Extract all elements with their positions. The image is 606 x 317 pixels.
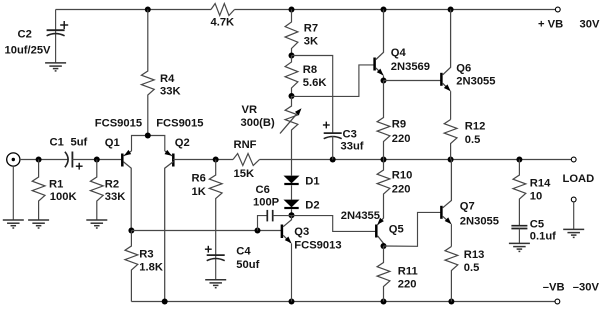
- label R13: [464, 249, 485, 261]
- wire top +VB rail left segment (C2 to 4.7K): [56, 9, 211, 11]
- resistor 4.7K (supply decoupling, in series with top rail): [211, 4, 235, 16]
- diode D2: [284, 200, 300, 216]
- svg-text:33K: 33K: [105, 191, 126, 203]
- label + VB: [538, 19, 563, 31]
- label C1 value 5uf: [71, 137, 88, 149]
- resistor R8 5.6K: [285, 56, 298, 97]
- ground below C4: [205, 280, 226, 288]
- label R2 value 33K: [105, 191, 126, 203]
- diode D1: [284, 176, 300, 200]
- svg-text:50uf: 50uf: [236, 259, 259, 271]
- label Q3 type FCS9013: [294, 239, 341, 251]
- label R6 value 1K: [192, 186, 206, 198]
- capacitor C3 33uf: [324, 133, 342, 159]
- svg-text:D2: D2: [305, 200, 319, 212]
- svg-text:FCS9015: FCS9015: [156, 118, 203, 130]
- wire output rail (RNF to LOAD terminal): [260, 159, 572, 161]
- wire R7/R8 junction to C3: [292, 56, 333, 134]
- wire Q5 collector to Q7 base: [384, 212, 442, 246]
- label C4: [236, 246, 251, 258]
- resistor R1 100K: [32, 160, 45, 221]
- label R8 value 5.6K: [303, 77, 327, 89]
- label D1: [305, 176, 319, 188]
- wire Q1 collector line to Q3 base: [131, 230, 281, 232]
- node junction emitters / R4: [145, 133, 151, 139]
- label VR value 300(B): [241, 117, 275, 129]
- svg-text:C1: C1: [50, 137, 64, 149]
- ground below C2: [45, 63, 66, 71]
- input jack J1: [7, 153, 20, 166]
- label Q2: [175, 137, 190, 149]
- svg-text:R13: R13: [464, 249, 485, 261]
- label C4 polarity +: [205, 246, 212, 253]
- label R14: [530, 177, 551, 189]
- label R3: [139, 249, 153, 261]
- label C1: [50, 137, 64, 149]
- wire Q4 emitter to Q6 base: [384, 80, 442, 82]
- svg-text:–30V: –30V: [573, 281, 600, 293]
- svg-text:R10: R10: [392, 170, 413, 182]
- label 30V: [580, 19, 600, 31]
- label Q5: [389, 224, 404, 236]
- svg-text:100P: 100P: [253, 197, 280, 209]
- svg-text:R2: R2: [105, 178, 119, 190]
- resistor R10 220: [377, 160, 390, 216]
- node junction base line / C6: [255, 228, 261, 234]
- label LOAD: [563, 173, 595, 185]
- svg-text:+ VB: + VB: [538, 19, 563, 31]
- node junction C1 / R2: [94, 157, 100, 163]
- terminal -VB: [555, 299, 560, 304]
- capacitor C1 5uf: [65, 152, 73, 168]
- variable resistor VR 300(B): [280, 96, 302, 176]
- svg-text:220: 220: [392, 133, 411, 145]
- node junction R8 / VR / Q4 base wire: [289, 93, 295, 99]
- svg-text:4.7K: 4.7K: [211, 17, 235, 29]
- resistor R4 33K: [141, 10, 154, 136]
- svg-text:–VB: –VB: [543, 281, 565, 293]
- transistor Q5 2N4355: [376, 216, 384, 247]
- label R10: [392, 170, 413, 182]
- svg-text:220: 220: [392, 183, 411, 195]
- label C3 polarity +: [323, 122, 330, 129]
- svg-text:2N3569: 2N3569: [391, 61, 430, 73]
- transistor Q3 FCS9013: [282, 215, 292, 301]
- label -VB: [543, 281, 565, 293]
- ground stub below input jack: [12, 166, 14, 220]
- svg-text:R1: R1: [49, 178, 63, 190]
- label -30V: [573, 281, 600, 293]
- label C6: [256, 184, 270, 196]
- terminal load return: [571, 197, 576, 202]
- resistor R6 1K: [209, 160, 222, 256]
- resistor R13 0.5: [445, 247, 458, 302]
- ground below R2: [86, 220, 107, 228]
- svg-text:C5: C5: [530, 218, 544, 230]
- label Q5 type 2N4355: [341, 210, 380, 222]
- svg-text:Q6: Q6: [456, 62, 471, 74]
- label Q7: [460, 201, 475, 213]
- label R9: [392, 119, 406, 131]
- wire R8 bottom to Q4 base: [292, 65, 375, 97]
- svg-text:33uf: 33uf: [341, 141, 364, 153]
- node junction Q5 collector / R11 / Q7 base wire: [381, 243, 387, 249]
- node junction R7 / R8 / C3 wire: [289, 53, 295, 59]
- label R3 value 1.8K: [139, 262, 163, 274]
- resistor R11 220: [377, 246, 390, 302]
- node junction top rail / Q4 collector: [381, 7, 387, 13]
- svg-text:LOAD: LOAD: [563, 173, 595, 185]
- label R13 value 0.5: [464, 262, 480, 274]
- label R7: [304, 22, 318, 34]
- resistor R3 1.8K: [125, 231, 138, 302]
- svg-text:0.5: 0.5: [464, 262, 480, 274]
- svg-text:10uf/25V: 10uf/25V: [5, 45, 52, 57]
- node junction bottom rail / R13: [448, 299, 454, 305]
- svg-text:220: 220: [398, 278, 417, 290]
- svg-text:0.5: 0.5: [465, 134, 481, 146]
- wire Q1/Q2 emitter tie to R4: [132, 136, 165, 152]
- label RNF value 15K: [234, 168, 255, 180]
- node junction D2 / C6 / Q3 collector / Q5 base wire: [289, 212, 295, 218]
- label Q6 type 2N3055: [456, 75, 495, 87]
- ground below C5: [509, 243, 530, 251]
- resistor R12 0.5: [444, 120, 457, 160]
- label Q7 type 2N3055: [460, 215, 499, 227]
- node junction top rail / R7: [289, 7, 295, 13]
- resistor R7 3K: [285, 10, 298, 56]
- svg-text:1.8K: 1.8K: [139, 262, 163, 274]
- svg-text:R3: R3: [139, 249, 153, 261]
- svg-text:1K: 1K: [192, 186, 206, 198]
- label Q3: [294, 226, 309, 238]
- resistor R14 10: [513, 160, 526, 226]
- svg-text:33K: 33K: [160, 85, 181, 97]
- svg-text:D1: D1: [305, 176, 319, 188]
- label R6: [192, 173, 206, 185]
- wire D2 node to Q5 base: [292, 216, 377, 232]
- transistor Q7 2N3055: [441, 160, 451, 247]
- label C5 value 0.1uf: [530, 230, 556, 242]
- wire bottom -VB rail: [131, 301, 555, 303]
- label C6 value 100P: [253, 197, 280, 209]
- label R12 value 0.5: [465, 134, 481, 146]
- node junction output rail / R12-Q7 collector: [448, 157, 454, 163]
- label C3: [343, 129, 357, 141]
- label Q2 type FCS9015: [156, 118, 203, 130]
- svg-text:5.6K: 5.6K: [303, 77, 327, 89]
- label 4.7K value: [211, 17, 235, 29]
- resistor R2 33K: [90, 160, 103, 221]
- ground below load return: [563, 229, 584, 237]
- label R8: [303, 64, 317, 76]
- label C2: [18, 29, 32, 41]
- label VR: [242, 104, 258, 116]
- svg-text:10: 10: [530, 190, 542, 202]
- capacitor C4 50uf: [207, 255, 225, 280]
- label C5: [530, 218, 544, 230]
- node junction top rail / Q6 collector: [448, 7, 454, 13]
- node junction bottom rail / R11: [381, 299, 387, 305]
- svg-text:Q2: Q2: [175, 137, 190, 149]
- label Q6: [456, 62, 471, 74]
- capacitor C5 0.1uf: [511, 226, 527, 244]
- svg-text:C4: C4: [236, 246, 251, 258]
- node junction Q2 base / R6: [213, 157, 219, 163]
- label Q1 type FCS9015: [95, 118, 142, 130]
- svg-text:0.1uf: 0.1uf: [530, 230, 556, 242]
- label R14 value 10: [530, 190, 542, 202]
- resistor R9 220: [377, 81, 390, 160]
- node junction top rail / R4: [145, 7, 151, 13]
- svg-text:R7: R7: [304, 22, 318, 34]
- transistor Q6 2N3055: [441, 10, 450, 120]
- svg-text:C2: C2: [18, 29, 32, 41]
- capacitor C6 100P: [258, 210, 292, 231]
- wire load return to ground: [573, 202, 575, 230]
- svg-text:C3: C3: [343, 129, 357, 141]
- svg-text:VR: VR: [242, 104, 258, 116]
- terminal +VB: [555, 7, 560, 12]
- svg-text:30V: 30V: [580, 19, 600, 31]
- transistor Q4 2N3569: [375, 10, 384, 81]
- svg-text:2N3055: 2N3055: [460, 215, 499, 227]
- label R4 value 33K: [160, 85, 181, 97]
- node junction Q1 collector / R3 / Q3 base line: [128, 228, 134, 234]
- svg-text:Q4: Q4: [391, 47, 407, 59]
- ground below R1: [28, 220, 49, 228]
- node junction output rail / R9-R10: [381, 157, 387, 163]
- ground below input jack: [3, 220, 24, 228]
- svg-text:2N3055: 2N3055: [456, 75, 495, 87]
- transistor Q2 FCS9015: [165, 150, 174, 302]
- svg-text:Q3: Q3: [294, 226, 309, 238]
- label C2 value 10uf/25V: [5, 45, 52, 57]
- svg-text:Q1: Q1: [105, 137, 120, 149]
- label D2: [305, 200, 319, 212]
- svg-text:R8: R8: [303, 64, 317, 76]
- svg-text:Q5: Q5: [389, 224, 404, 236]
- svg-text:R12: R12: [465, 121, 486, 133]
- svg-text:R9: R9: [392, 119, 406, 131]
- label R7 value 3K: [304, 36, 318, 48]
- wire C1 to Q1 base: [72, 159, 122, 161]
- wire input jack to C1: [20, 159, 68, 161]
- svg-text:Q7: Q7: [460, 201, 475, 213]
- label C1 polarity +: [76, 163, 83, 170]
- svg-text:R11: R11: [398, 266, 418, 278]
- node junction Q4 emitter / R9 / Q6 base: [381, 78, 387, 84]
- label Q1: [105, 137, 120, 149]
- svg-text:2N4355: 2N4355: [341, 210, 380, 222]
- svg-text:100K: 100K: [50, 191, 77, 203]
- terminal output to LOAD: [571, 157, 576, 162]
- wire Q2 base to RNF: [173, 159, 233, 161]
- label R11: [398, 266, 418, 278]
- wire top +VB rail right segment (4.7K to +VB terminal): [235, 9, 556, 11]
- label R2: [105, 178, 119, 190]
- label R12: [465, 121, 486, 133]
- label Q4: [391, 47, 407, 59]
- node junction output rail / C3: [330, 157, 336, 163]
- label C2 polarity +: [60, 21, 68, 29]
- svg-text:R14: R14: [530, 177, 551, 189]
- node junction output rail / R14: [516, 157, 522, 163]
- label RNF: [234, 139, 257, 151]
- svg-text:3K: 3K: [304, 36, 318, 48]
- svg-text:15K: 15K: [234, 168, 255, 180]
- node junction bottom rail / Q2 collector: [162, 299, 168, 305]
- resistor RNF 15K (feedback): [233, 154, 260, 166]
- label R9 value 220: [392, 133, 411, 145]
- node junction bottom rail / Q3 emitter: [289, 299, 295, 305]
- svg-text:300(B): 300(B): [241, 117, 275, 129]
- label R1: [49, 178, 63, 190]
- svg-text:C6: C6: [256, 184, 270, 196]
- label Q4 type 2N3569: [391, 61, 430, 73]
- svg-text:R4: R4: [160, 73, 175, 85]
- svg-text:R6: R6: [192, 173, 206, 185]
- label C3 value 33uf: [341, 141, 364, 153]
- label C4 value 50uf: [236, 259, 259, 271]
- capacitor C2: [47, 10, 65, 63]
- label R11 value 220: [398, 278, 417, 290]
- svg-text:FCS9015: FCS9015: [95, 118, 142, 130]
- label R4: [160, 73, 175, 85]
- transistor Q1 FCS9015: [122, 150, 131, 231]
- svg-text:5uf: 5uf: [71, 137, 88, 149]
- svg-text:FCS9013: FCS9013: [294, 239, 341, 251]
- svg-text:RNF: RNF: [234, 139, 257, 151]
- node junction input / R1: [36, 157, 42, 163]
- label R10 value 220: [392, 183, 411, 195]
- label R1 value 100K: [50, 191, 77, 203]
